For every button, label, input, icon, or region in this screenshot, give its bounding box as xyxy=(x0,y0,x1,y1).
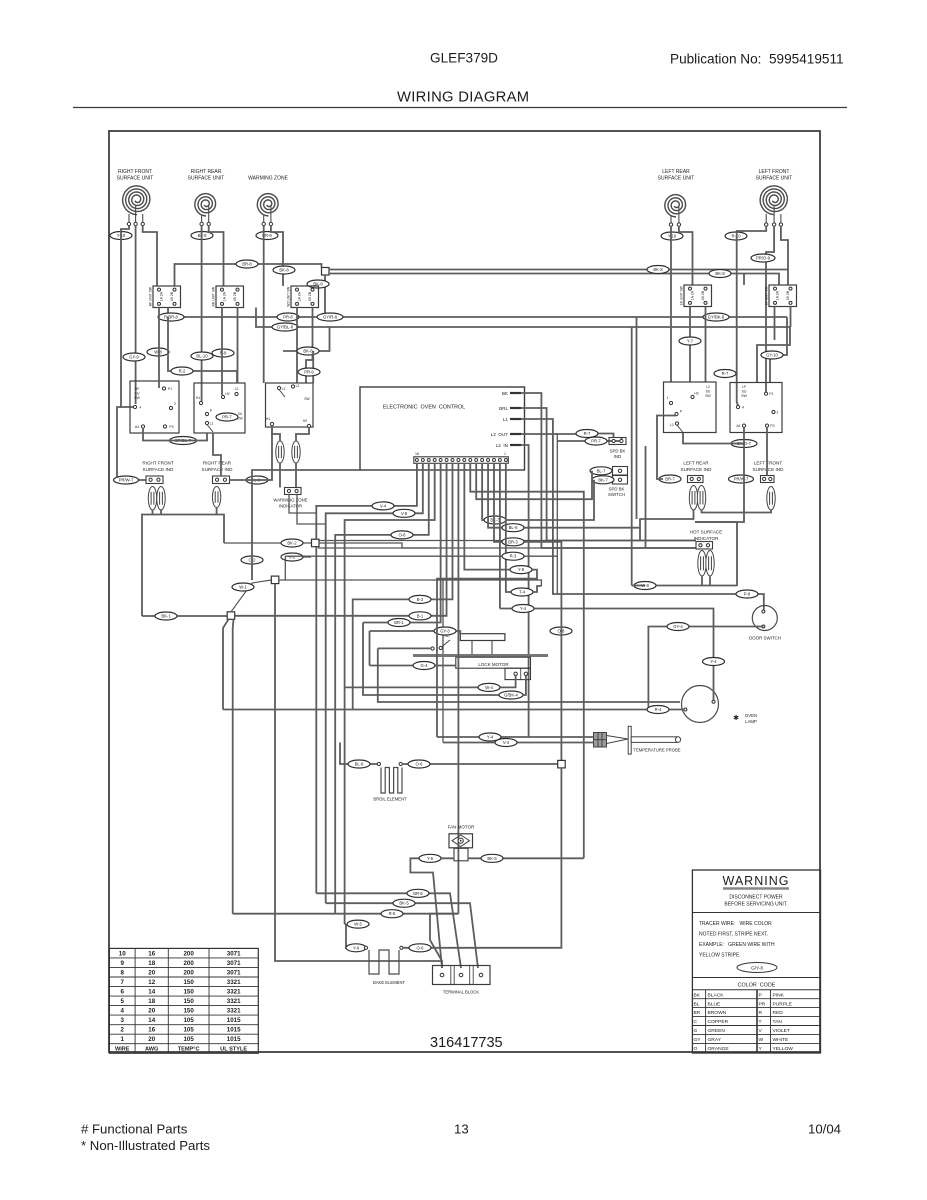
wire label R/BR-8 xyxy=(158,313,184,321)
wire pr9 branch xyxy=(312,351,314,383)
svg-text:GY/R-8: GY/R-8 xyxy=(323,315,338,320)
svg-text:V-4: V-4 xyxy=(380,503,387,508)
wire lr l1 to bko7 xyxy=(683,427,744,444)
switch RR unit sw xyxy=(211,286,243,308)
lr ind lamp b xyxy=(697,486,705,511)
right rear surface ind connector xyxy=(213,476,230,484)
wire label T-4 r xyxy=(511,588,533,596)
lock motor terminal box xyxy=(505,668,531,679)
switch LR unit sw xyxy=(679,285,711,307)
wire label BK-1 xyxy=(155,612,177,620)
wire junction down xyxy=(324,275,326,317)
svg-text:Y-4: Y-4 xyxy=(710,659,717,664)
wire L2IN down xyxy=(528,469,530,738)
wire bko7 down xyxy=(695,444,744,523)
svg-text:TEMPERATURE PROBE: TEMPERATURE PROBE xyxy=(633,748,680,753)
svg-text:PR/O-9: PR/O-9 xyxy=(756,256,771,261)
svg-text:W-4: W-4 xyxy=(485,685,493,690)
svg-text:LAMP: LAMP xyxy=(745,719,757,724)
wire h1 right end down xyxy=(770,317,787,383)
svg-text:SURFACE IND: SURFACE IND xyxy=(681,467,713,472)
svg-text:SURFACE UNIT: SURFACE UNIT xyxy=(658,176,695,182)
svg-text:10/04: 10/04 xyxy=(808,1122,841,1137)
svg-text:UL STYLE: UL STYLE xyxy=(220,1047,247,1053)
svg-text:DOOR SWITCH: DOOR SWITCH xyxy=(749,636,781,641)
svg-text:1A 2A: 1A 2A xyxy=(297,291,301,301)
svg-text:SURFACE IND: SURFACE IND xyxy=(143,467,175,472)
svg-text:1: 1 xyxy=(504,452,506,456)
wire label GY/BL-8 xyxy=(272,323,298,331)
switch RF SU SW box xyxy=(130,381,179,433)
right rear surface unit coil xyxy=(195,194,216,216)
svg-text:150: 150 xyxy=(183,979,194,986)
svg-text:1A 2A: 1A 2A xyxy=(222,291,226,301)
wire pin5 left xyxy=(363,463,441,623)
warning box xyxy=(692,870,820,1053)
hot surface ind lamp a xyxy=(698,551,706,577)
svg-text:HOT SURFACE: HOT SURFACE xyxy=(690,530,723,535)
svg-text:PR-7: PR-7 xyxy=(591,439,601,444)
wire label GY-9 xyxy=(123,353,145,361)
svg-text:A4: A4 xyxy=(135,425,139,429)
left rear surface unit coil xyxy=(665,195,686,217)
junction square BK-1 xyxy=(227,612,235,620)
svg-text:SW: SW xyxy=(705,394,711,398)
svg-text:PR-8: PR-8 xyxy=(283,315,293,320)
svg-text:SU: SU xyxy=(706,390,711,394)
wire label PR-9 b xyxy=(298,368,320,376)
wire bake left xyxy=(346,947,365,949)
svg-text:5: 5 xyxy=(121,998,125,1005)
svg-text:BR-5: BR-5 xyxy=(413,891,423,896)
svg-text:R-5: R-5 xyxy=(389,911,396,916)
wire rf right down xyxy=(143,226,157,286)
warming zone ind connector xyxy=(285,488,302,495)
wire bk1 two downs xyxy=(223,619,229,709)
wire fan left xyxy=(410,858,454,968)
svg-text:Y-8: Y-8 xyxy=(518,567,525,572)
wire rr left down xyxy=(201,226,203,401)
spd bk switch connector xyxy=(613,467,628,476)
svg-text:PR: PR xyxy=(759,1001,766,1007)
lf ind lamp xyxy=(767,487,775,511)
svg-text:1: 1 xyxy=(667,396,669,400)
svg-text:ELECTRONIC OVEN CONTROL: ELECTRONIC OVEN CONTROL xyxy=(383,405,465,411)
wire rb3 xyxy=(645,446,647,548)
svg-text:1015: 1015 xyxy=(227,1027,241,1034)
svg-text:1B 2B: 1B 2B xyxy=(308,291,312,301)
wire probe lower xyxy=(443,742,594,744)
svg-text:20: 20 xyxy=(148,1008,155,1015)
rf coil terminals xyxy=(127,222,130,225)
wire wz lamps up xyxy=(272,426,280,442)
svg-text:3071: 3071 xyxy=(227,969,241,976)
wire label Y-7 right xyxy=(679,337,701,345)
svg-text:BK-5: BK-5 xyxy=(487,856,497,861)
svg-text:1: 1 xyxy=(121,1036,125,1043)
bus wire h2 xyxy=(256,308,790,328)
wire label R-4 xyxy=(647,706,669,714)
svg-text:P-8: P-8 xyxy=(744,592,751,597)
svg-text:BLUE: BLUE xyxy=(708,1001,722,1007)
fan motor box xyxy=(449,834,473,848)
svg-text:R-9: R-9 xyxy=(220,351,227,356)
wire label PR-9 wz xyxy=(256,232,278,240)
svg-text:DISCONNECT POWER: DISCONNECT POWER xyxy=(729,895,783,901)
wire BRL from eoc xyxy=(521,408,696,541)
wire label GY/BK-8 xyxy=(703,313,729,321)
svg-text:H1: H1 xyxy=(196,396,200,400)
svg-text:YELLOW: YELLOW xyxy=(773,1046,794,1052)
wire door run down xyxy=(647,709,649,711)
svg-text:LEFT FRONT: LEFT FRONT xyxy=(754,461,782,466)
hot surface ind connector xyxy=(696,542,713,550)
wire lf left down xyxy=(737,226,767,406)
wire label B-1 xyxy=(409,612,431,620)
wire r3 line xyxy=(460,556,557,594)
svg-text:# Functional Parts: # Functional Parts xyxy=(81,1122,188,1137)
svg-text:PR/W-7: PR/W-7 xyxy=(119,478,134,483)
wire lr ind down left xyxy=(640,510,694,541)
svg-text:PR-9: PR-9 xyxy=(304,370,314,375)
svg-text:R: R xyxy=(759,1010,763,1016)
wire label PR-7 spd xyxy=(585,437,607,445)
svg-text:✱: ✱ xyxy=(733,714,739,722)
svg-text:H2: H2 xyxy=(694,392,698,396)
svg-text:RED: RED xyxy=(773,1010,784,1016)
wire label BL-10 xyxy=(191,352,213,360)
svg-text:16: 16 xyxy=(148,1027,155,1034)
svg-text:FAN MOTOR: FAN MOTOR xyxy=(448,825,475,830)
svg-text:LOCK MOTOR: LOCK MOTOR xyxy=(478,662,509,667)
svg-text:3: 3 xyxy=(121,1017,125,1024)
warming zone ind lamp a xyxy=(276,441,284,463)
wire label V-4 probe xyxy=(495,739,517,747)
junction square broil xyxy=(558,760,566,768)
wire pin3 left xyxy=(335,463,429,914)
svg-text:BR-7: BR-7 xyxy=(665,477,675,482)
broil element terminals xyxy=(377,762,380,765)
wire label BK-8 a xyxy=(273,266,295,274)
switch LF unit sw xyxy=(764,285,796,307)
svg-text:L1: L1 xyxy=(282,387,286,391)
svg-text:WARMING ZONE: WARMING ZONE xyxy=(248,176,288,182)
svg-text:TRACER WIRE: WIRE COLOR: TRACER WIRE: WIRE COLOR xyxy=(699,921,772,927)
svg-text:R-2: R-2 xyxy=(179,369,186,374)
wire door bottom xyxy=(648,627,763,710)
svg-text:BAKE ELEMENT: BAKE ELEMENT xyxy=(373,980,406,985)
wire label R-7 top xyxy=(714,370,736,378)
svg-text:BROWN: BROWN xyxy=(708,1010,727,1016)
wire label R-9 xyxy=(212,349,234,357)
wire bake right xyxy=(403,768,561,948)
svg-text:GY-3: GY-3 xyxy=(440,629,450,634)
wire lock motor g4 xyxy=(370,665,456,667)
wire gauge table xyxy=(109,948,258,1053)
svg-text:LEFT FRONT: LEFT FRONT xyxy=(759,169,790,175)
terminal block box xyxy=(433,966,491,985)
svg-text:3071: 3071 xyxy=(227,950,241,957)
svg-text:BK-8: BK-8 xyxy=(715,271,725,276)
wire L2OUT from eoc xyxy=(521,434,614,438)
lock switch xyxy=(431,647,434,650)
broil element xyxy=(381,768,402,794)
svg-text:G: G xyxy=(694,1028,698,1034)
wire BK from eoc xyxy=(521,393,696,548)
svg-text:V-4: V-4 xyxy=(503,740,510,745)
wire rr sw b down xyxy=(221,308,223,396)
svg-text:GY/BL-8: GY/BL-8 xyxy=(277,325,294,330)
svg-text:1B 2B: 1B 2B xyxy=(170,291,174,301)
svg-text:BL-7: BL-7 xyxy=(597,468,607,473)
wire label Y-4 b xyxy=(703,658,725,666)
svg-text:O-6: O-6 xyxy=(417,945,425,950)
svg-text:G/BK-4: G/BK-4 xyxy=(504,693,518,698)
svg-text:1A 2A: 1A 2A xyxy=(690,290,694,300)
wire label Y-4 a xyxy=(512,605,534,613)
wire wz ind stub a xyxy=(289,495,316,514)
svg-text:316417735: 316417735 xyxy=(430,1035,503,1051)
svg-text:BEFORE SERVICING UNIT.: BEFORE SERVICING UNIT. xyxy=(724,902,787,908)
wire hot surface feed lower xyxy=(318,547,696,549)
svg-text:SU: SU xyxy=(742,390,747,394)
wire bottom h3b xyxy=(430,914,458,961)
lr coil terminals xyxy=(669,223,672,226)
wire label BK-8 c xyxy=(709,270,731,278)
wz coil terminals xyxy=(262,222,265,225)
wire label Y-5 fan xyxy=(419,854,441,862)
wire label BK-8 d xyxy=(307,280,329,288)
wire label R-7 spd xyxy=(576,430,598,438)
svg-text:GY-10: GY-10 xyxy=(766,353,778,358)
svg-text:3321: 3321 xyxy=(227,989,241,996)
svg-text:BR-8: BR-8 xyxy=(242,262,252,267)
wire label G-4 xyxy=(413,662,435,670)
wire label BL-7 spd xyxy=(590,467,612,475)
svg-text:3321: 3321 xyxy=(227,998,241,1005)
wire label BL-9 rr xyxy=(191,232,213,240)
svg-text:C: C xyxy=(694,1019,698,1025)
wire l8 branch xyxy=(230,426,273,481)
svg-text:L2: L2 xyxy=(706,385,710,389)
wire wz left down xyxy=(263,226,265,383)
wire wz lamps down xyxy=(279,463,281,488)
svg-text:A4: A4 xyxy=(736,424,740,428)
svg-text:RR UNIT SW: RR UNIT SW xyxy=(211,286,215,306)
wire label BK-2 xyxy=(281,539,303,547)
door switch circle xyxy=(752,606,777,631)
wire rb2 xyxy=(636,317,638,519)
svg-text:1A 2A: 1A 2A xyxy=(775,290,779,300)
svg-text:Y-5: Y-5 xyxy=(427,856,434,861)
wire bk8 branch xyxy=(283,327,330,351)
svg-text:200: 200 xyxy=(183,950,194,957)
svg-text:BK-1: BK-1 xyxy=(161,614,171,619)
svg-text:P: P xyxy=(759,992,762,998)
wire broil right xyxy=(402,763,557,765)
lock motor bar xyxy=(413,654,548,657)
temperature probe xyxy=(594,733,607,748)
wire label BR-7 lr xyxy=(659,475,681,483)
wire broil run xyxy=(340,743,377,765)
svg-text:SU: SU xyxy=(238,412,243,416)
svg-text:B-3: B-3 xyxy=(417,597,424,602)
wire spd switch upper xyxy=(592,470,613,472)
wire label BK-3 r xyxy=(484,516,506,524)
wire wz ind stub b xyxy=(297,495,326,525)
svg-text:Y-7: Y-7 xyxy=(687,339,694,344)
svg-text:RF UNIT SW: RF UNIT SW xyxy=(148,286,152,306)
wire bottom h1 xyxy=(316,893,461,968)
wire lock switch riser xyxy=(378,648,680,702)
wire rr right down xyxy=(209,226,224,286)
svg-text:1015: 1015 xyxy=(227,1036,241,1043)
svg-text:RIGHT REAR: RIGHT REAR xyxy=(191,169,222,175)
switch WZ SW box xyxy=(266,383,314,427)
wire w1sq right xyxy=(279,580,542,586)
wire bk2 run xyxy=(224,542,312,544)
wire label BK-5 fan xyxy=(481,854,503,862)
svg-text:BR-3: BR-3 xyxy=(508,539,518,544)
wire pin1 left xyxy=(316,463,417,893)
wire L1 from eoc xyxy=(521,419,764,610)
wire label G/BK-4 xyxy=(499,691,523,699)
svg-text:NOTED FIRST, STRIPE NEXT.: NOTED FIRST, STRIPE NEXT. xyxy=(699,932,768,938)
wire label GY/R-8 xyxy=(317,313,343,321)
wire rr ind feed xyxy=(213,433,221,476)
svg-text:W: W xyxy=(759,1037,764,1043)
wire lock switch feed xyxy=(378,647,431,649)
wire r2 branch xyxy=(168,317,237,383)
wire label BK-7 spd xyxy=(592,476,614,484)
svg-text:3321: 3321 xyxy=(227,1008,241,1015)
svg-text:SURFACE UNIT: SURFACE UNIT xyxy=(756,176,793,182)
wire lf p3 down xyxy=(766,427,768,476)
svg-text:L2: L2 xyxy=(296,384,300,388)
switch LF SU SW box xyxy=(730,383,782,433)
wire hot surface feed upper xyxy=(311,540,696,542)
svg-text:PURPLE: PURPLE xyxy=(773,1001,793,1007)
svg-text:T: T xyxy=(759,1019,762,1025)
svg-text:2: 2 xyxy=(174,402,176,406)
svg-text:Y-6: Y-6 xyxy=(353,945,360,950)
wire lf unit feed xyxy=(743,274,745,286)
svg-text:Y-10: Y-10 xyxy=(668,234,677,239)
svg-text:BK-8: BK-8 xyxy=(653,267,663,272)
svg-text:200: 200 xyxy=(183,960,194,967)
svg-text:10: 10 xyxy=(119,950,126,957)
svg-text:T-4: T-4 xyxy=(519,590,526,595)
wire pin6 left xyxy=(235,463,447,616)
wire label BR-5 xyxy=(407,889,429,897)
svg-text:ORANGE: ORANGE xyxy=(708,1046,730,1052)
left front surface ind connector xyxy=(761,476,775,483)
svg-text:BR-1: BR-1 xyxy=(394,620,404,625)
svg-text:9: 9 xyxy=(121,960,125,967)
wire eoc left l xyxy=(252,470,360,580)
wire label GY-3 l xyxy=(434,627,456,635)
bake element xyxy=(369,950,399,974)
rr ind lamp xyxy=(212,487,220,508)
wire label W-8 l xyxy=(147,348,169,356)
svg-text:GY/BK-8: GY/BK-8 xyxy=(708,315,725,320)
svg-text:* Non-Illustrated Parts: * Non-Illustrated Parts xyxy=(81,1138,210,1153)
rf ind lamp b xyxy=(157,487,165,511)
svg-text:L1: L1 xyxy=(503,417,509,422)
wire pin15 down xyxy=(499,463,501,609)
svg-text:1B 2B: 1B 2B xyxy=(701,290,705,300)
wire spd ind lower xyxy=(557,438,621,442)
switch RF unit sw xyxy=(148,286,180,308)
wire bk2sq right xyxy=(319,543,437,548)
wire label W-4 lock xyxy=(478,683,500,691)
svg-text:H2: H2 xyxy=(303,419,307,423)
wire o2 down xyxy=(251,564,253,580)
svg-text:SW: SW xyxy=(741,394,747,398)
wire hot surface bottom run xyxy=(634,585,737,587)
wire label B-3 xyxy=(409,595,431,603)
svg-text:BK-8: BK-8 xyxy=(279,268,289,273)
svg-text:16: 16 xyxy=(148,950,155,957)
svg-text:COPPER: COPPER xyxy=(708,1019,729,1025)
svg-text:PINK: PINK xyxy=(773,992,785,998)
svg-text:BK: BK xyxy=(694,992,701,998)
svg-text:INDICATOR: INDICATOR xyxy=(279,504,302,509)
svg-text:L2 IN: L2 IN xyxy=(496,443,508,448)
svg-text:W-5: W-5 xyxy=(354,922,362,927)
svg-text:3321: 3321 xyxy=(227,979,241,986)
diagram border xyxy=(109,131,820,1052)
svg-text:BR: BR xyxy=(694,1010,701,1016)
switch RR SU SW box xyxy=(194,383,245,433)
svg-text:SU: SU xyxy=(135,392,140,396)
svg-text:TERMINAL BLOCK: TERMINAL BLOCK xyxy=(443,990,480,995)
svg-text:BROIL ELEMENT: BROIL ELEMENT xyxy=(373,797,407,802)
svg-text:P: P xyxy=(680,410,683,414)
wire rb1 xyxy=(631,327,633,586)
wire rf ind to left xyxy=(160,510,162,515)
svg-text:P1: P1 xyxy=(769,392,773,396)
wire label V-4 l xyxy=(372,502,394,510)
wire label GY-4 xyxy=(667,623,689,631)
svg-text:SWITCH: SWITCH xyxy=(608,492,625,497)
warming zone ind lamp b xyxy=(292,441,300,463)
svg-text:H1: H1 xyxy=(266,417,270,421)
svg-text:R-7: R-7 xyxy=(584,431,591,436)
svg-text:LF UNIT SW: LF UNIT SW xyxy=(764,286,768,306)
svg-text:P3: P3 xyxy=(169,425,173,429)
wire lock term 2 xyxy=(363,623,526,696)
svg-text:PR/W-7: PR/W-7 xyxy=(734,477,749,482)
svg-text:2: 2 xyxy=(121,1027,125,1034)
wire label PR/W-7 lf xyxy=(729,475,754,483)
svg-text:105: 105 xyxy=(183,1036,194,1043)
svg-text:SURFACE UNIT: SURFACE UNIT xyxy=(188,176,225,182)
svg-text:BK-3: BK-3 xyxy=(490,518,500,523)
svg-text:PR-7: PR-7 xyxy=(222,415,232,420)
title underline xyxy=(73,107,847,109)
wire label W-8 xyxy=(634,582,656,590)
svg-text:GREEN: GREEN xyxy=(708,1028,726,1034)
wire oven lamp right xyxy=(500,609,714,701)
svg-text:VIOLET: VIOLET xyxy=(773,1028,790,1034)
wire pin7 left xyxy=(353,463,453,710)
svg-text:RF: RF xyxy=(135,387,141,391)
svg-text:20: 20 xyxy=(148,1036,155,1043)
svg-text:INDICATOR: INDICATOR xyxy=(694,536,720,541)
hot surface ind lamp b xyxy=(706,551,714,577)
wire w8 run extend xyxy=(632,585,645,587)
